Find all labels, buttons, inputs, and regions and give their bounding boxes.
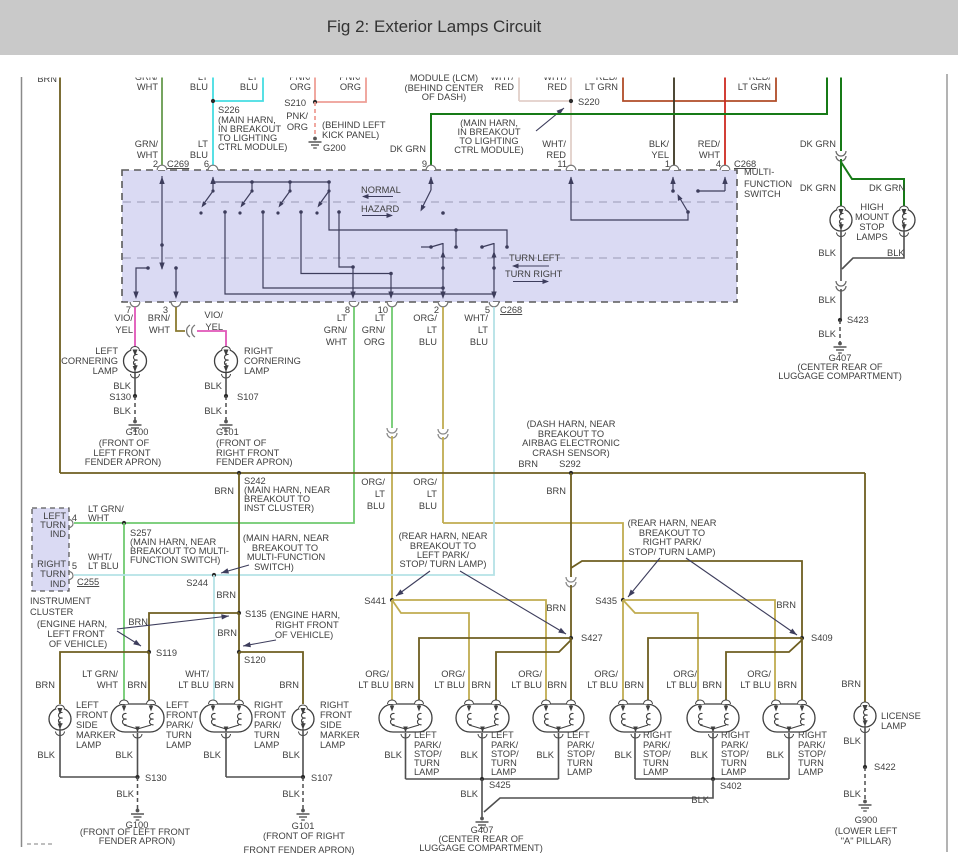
svg-text:LAMP: LAMP: [798, 767, 823, 777]
svg-text:WHT/: WHT/: [185, 669, 209, 679]
svg-text:ORG/: ORG/: [594, 669, 618, 679]
svg-text:BLK: BLK: [113, 381, 131, 391]
svg-text:S422: S422: [874, 762, 896, 772]
svg-text:FUNCTION: FUNCTION: [744, 179, 792, 189]
svg-text:LUGGAGE COMPARTMENT): LUGGAGE COMPARTMENT): [778, 371, 902, 381]
svg-text:BRN: BRN: [127, 680, 147, 690]
svg-text:(FRONT OF: (FRONT OF: [99, 438, 150, 448]
svg-text:WHT/: WHT/: [543, 72, 567, 82]
svg-text:LT BLU: LT BLU: [511, 680, 542, 690]
svg-text:WHT/: WHT/: [542, 139, 566, 149]
svg-text:BLK: BLK: [818, 295, 836, 305]
svg-text:LUGGAGE COMPARTMENT): LUGGAGE COMPARTMENT): [419, 843, 543, 853]
svg-text:BLK: BLK: [536, 750, 554, 760]
svg-text:BRN: BRN: [471, 680, 491, 690]
svg-text:BLK: BLK: [113, 406, 131, 416]
svg-text:GRN/: GRN/: [324, 325, 348, 335]
svg-text:VIO/: VIO/: [114, 313, 133, 323]
svg-text:S244: S244: [186, 578, 208, 588]
svg-text:LEFT: LEFT: [166, 700, 189, 710]
svg-text:DK GRN: DK GRN: [869, 183, 905, 193]
svg-text:G101: G101: [292, 821, 315, 831]
svg-text:C268: C268: [734, 159, 756, 169]
svg-text:RED/: RED/: [698, 139, 721, 149]
svg-text:LAMP: LAMP: [643, 767, 668, 777]
svg-text:ORG/: ORG/: [747, 669, 771, 679]
svg-text:4: 4: [72, 513, 77, 523]
svg-text:BRN: BRN: [702, 680, 722, 690]
svg-text:RIGHT: RIGHT: [37, 559, 66, 569]
svg-text:LAMP: LAMP: [254, 740, 279, 750]
svg-text:ORG/: ORG/: [673, 669, 697, 679]
svg-text:BRN: BRN: [776, 600, 796, 610]
svg-text:S409: S409: [811, 633, 833, 643]
svg-text:BRN: BRN: [841, 679, 861, 689]
svg-text:LT: LT: [375, 313, 385, 323]
svg-text:DK GRN: DK GRN: [800, 183, 836, 193]
svg-text:SWITCH: SWITCH: [744, 189, 781, 199]
svg-text:IND: IND: [50, 579, 66, 589]
svg-text:G900: G900: [855, 815, 878, 825]
svg-text:TURN: TURN: [166, 730, 192, 740]
svg-text:LT: LT: [375, 489, 385, 499]
svg-text:TURN RIGHT: TURN RIGHT: [505, 269, 563, 279]
svg-text:FRONT: FRONT: [166, 710, 198, 720]
svg-text:LT BLU: LT BLU: [434, 680, 465, 690]
svg-text:MULTI-FUNCTION: MULTI-FUNCTION: [247, 552, 325, 562]
svg-text:BRN: BRN: [214, 680, 234, 690]
svg-text:BRN: BRN: [216, 590, 236, 600]
svg-text:S226: S226: [218, 105, 240, 115]
svg-text:SWITCH): SWITCH): [254, 562, 294, 572]
svg-text:G200: G200: [323, 143, 346, 153]
svg-text:S220: S220: [578, 97, 600, 107]
svg-text:BRN: BRN: [37, 74, 57, 84]
svg-text:BLK: BLK: [384, 750, 402, 760]
svg-text:LAMP: LAMP: [93, 366, 118, 376]
svg-text:SIDE: SIDE: [76, 720, 98, 730]
svg-text:PNK/: PNK/: [289, 72, 311, 82]
svg-text:BRN: BRN: [518, 459, 538, 469]
svg-text:ORG/: ORG/: [361, 477, 385, 487]
svg-text:S441: S441: [364, 596, 386, 606]
svg-text:LT: LT: [198, 72, 208, 82]
svg-text:S107: S107: [311, 773, 333, 783]
svg-text:S210: S210: [284, 98, 306, 108]
svg-text:BLK: BLK: [766, 750, 784, 760]
svg-text:FRONT: FRONT: [254, 710, 286, 720]
svg-text:STOP/ TURN LAMP): STOP/ TURN LAMP): [400, 559, 487, 569]
svg-text:LT: LT: [427, 325, 437, 335]
svg-text:LT: LT: [198, 139, 208, 149]
svg-text:LAMP: LAMP: [76, 740, 101, 750]
svg-text:BLK: BLK: [282, 789, 300, 799]
svg-text:MARKER: MARKER: [76, 730, 116, 740]
svg-text:PNK/: PNK/: [339, 72, 361, 82]
svg-text:WHT: WHT: [326, 337, 347, 347]
svg-text:BLU: BLU: [470, 337, 488, 347]
svg-text:BRN: BRN: [217, 628, 237, 638]
svg-text:S130: S130: [145, 773, 167, 783]
svg-text:LEFT: LEFT: [567, 730, 590, 740]
svg-text:C255: C255: [77, 577, 99, 587]
svg-text:ORG/: ORG/: [413, 477, 437, 487]
svg-text:LT BLU: LT BLU: [358, 680, 389, 690]
svg-text:S119: S119: [156, 648, 177, 658]
svg-text:LT BLU: LT BLU: [666, 680, 697, 690]
svg-text:LEFT: LEFT: [76, 700, 99, 710]
svg-text:S402: S402: [720, 781, 742, 791]
svg-text:PARK/: PARK/: [254, 720, 282, 730]
svg-text:MARKER: MARKER: [320, 730, 360, 740]
svg-text:RIGHT: RIGHT: [244, 346, 273, 356]
svg-text:BRN: BRN: [279, 680, 299, 690]
svg-text:BLK: BLK: [203, 750, 221, 760]
svg-text:BRN/: BRN/: [148, 313, 171, 323]
svg-text:LT BLU: LT BLU: [587, 680, 618, 690]
svg-text:LT: LT: [337, 313, 347, 323]
svg-text:BRN: BRN: [624, 680, 644, 690]
svg-text:RIGHT: RIGHT: [721, 730, 750, 740]
svg-text:YEL: YEL: [115, 325, 133, 335]
svg-text:BRN: BRN: [777, 680, 797, 690]
svg-text:(REAR HARN, NEAR: (REAR HARN, NEAR: [399, 531, 488, 541]
svg-text:OF DASH): OF DASH): [422, 92, 466, 102]
svg-text:BLK: BLK: [843, 789, 861, 799]
svg-text:S427: S427: [581, 633, 603, 643]
svg-text:RIGHT: RIGHT: [643, 730, 672, 740]
svg-text:(FRONT OF: (FRONT OF: [216, 438, 267, 448]
svg-text:11: 11: [557, 159, 567, 169]
svg-text:FRONT FENDER APRON): FRONT FENDER APRON): [244, 845, 355, 855]
svg-text:WHT: WHT: [97, 680, 118, 690]
svg-text:LEFT: LEFT: [95, 346, 118, 356]
svg-text:TURN: TURN: [40, 569, 66, 579]
svg-text:BLU: BLU: [367, 501, 385, 511]
svg-text:S425: S425: [489, 780, 511, 790]
svg-text:BLK: BLK: [818, 248, 836, 258]
svg-text:BLK: BLK: [614, 750, 632, 760]
svg-text:STOP/ TURN LAMP): STOP/ TURN LAMP): [629, 547, 716, 557]
svg-text:BLU: BLU: [419, 501, 437, 511]
svg-text:BLK: BLK: [690, 750, 708, 760]
svg-text:CRASH SENSOR): CRASH SENSOR): [532, 448, 610, 458]
svg-text:5: 5: [72, 561, 77, 571]
svg-text:S130: S130: [109, 392, 131, 402]
svg-text:LEFT: LEFT: [414, 730, 437, 740]
svg-text:S120: S120: [244, 655, 266, 665]
svg-text:(BEHIND LEFT: (BEHIND LEFT: [322, 120, 386, 130]
svg-text:LAMP: LAMP: [491, 767, 516, 777]
svg-text:LAMP: LAMP: [414, 767, 439, 777]
svg-text:LAMP: LAMP: [567, 767, 592, 777]
svg-text:OF VEHICLE): OF VEHICLE): [275, 630, 333, 640]
svg-text:ORG: ORG: [287, 122, 308, 132]
svg-text:C268: C268: [500, 305, 522, 315]
svg-text:FRONT: FRONT: [320, 710, 352, 720]
svg-text:ORG/: ORG/: [441, 669, 465, 679]
svg-text:BLK: BLK: [116, 789, 134, 799]
svg-text:RED: RED: [494, 82, 514, 92]
svg-text:LEFT: LEFT: [491, 730, 514, 740]
svg-text:BLK/: BLK/: [649, 139, 670, 149]
svg-text:Fig 2: Exterior Lamps Circuit: Fig 2: Exterior Lamps Circuit: [327, 17, 542, 36]
svg-text:RED: RED: [547, 82, 567, 92]
svg-text:LT: LT: [478, 325, 488, 335]
svg-text:LAMP: LAMP: [721, 767, 746, 777]
svg-text:ORG/: ORG/: [413, 313, 437, 323]
svg-text:ORG: ORG: [364, 337, 385, 347]
svg-text:BLU: BLU: [190, 82, 208, 92]
svg-text:VIO/: VIO/: [204, 310, 223, 320]
svg-text:CLUSTER: CLUSTER: [30, 607, 74, 617]
svg-text:LT BLU: LT BLU: [88, 561, 119, 571]
svg-text:S423: S423: [847, 315, 869, 325]
svg-text:PARK/: PARK/: [166, 720, 194, 730]
svg-text:FENDER APRON): FENDER APRON): [85, 457, 161, 467]
svg-text:G101: G101: [216, 427, 239, 437]
svg-text:LT BLU: LT BLU: [178, 680, 209, 690]
svg-text:LT GRN/: LT GRN/: [82, 669, 118, 679]
svg-text:(FRONT OF RIGHT: (FRONT OF RIGHT: [263, 831, 345, 841]
svg-text:BLK: BLK: [843, 736, 861, 746]
svg-text:S292: S292: [559, 459, 581, 469]
svg-text:RIGHT: RIGHT: [320, 700, 349, 710]
svg-text:RIGHT: RIGHT: [254, 700, 283, 710]
svg-text:LEFT FRONT: LEFT FRONT: [47, 629, 104, 639]
svg-text:BLU: BLU: [419, 337, 437, 347]
svg-text:RED/: RED/: [596, 72, 619, 82]
svg-text:ORG: ORG: [340, 82, 361, 92]
svg-text:(LOWER LEFT: (LOWER LEFT: [835, 826, 898, 836]
svg-text:LICENSE: LICENSE: [881, 711, 921, 721]
svg-text:BLK: BLK: [460, 750, 478, 760]
svg-text:ORG/: ORG/: [518, 669, 542, 679]
svg-text:RIGHT PARK/: RIGHT PARK/: [643, 537, 702, 547]
svg-text:(REAR HARN, NEAR: (REAR HARN, NEAR: [628, 518, 717, 528]
svg-text:TURN: TURN: [254, 730, 280, 740]
svg-text:MODULE (LCM): MODULE (LCM): [410, 73, 478, 83]
svg-text:S107: S107: [237, 392, 259, 402]
svg-text:GRN/: GRN/: [362, 325, 386, 335]
svg-text:RIGHT: RIGHT: [798, 730, 827, 740]
svg-text:INSTRUMENT: INSTRUMENT: [30, 596, 91, 606]
svg-text:LT: LT: [427, 489, 437, 499]
svg-text:LT: LT: [248, 72, 258, 82]
svg-text:LAMP: LAMP: [320, 740, 345, 750]
svg-text:IND: IND: [50, 529, 66, 539]
svg-text:RIGHT FRONT: RIGHT FRONT: [275, 620, 339, 630]
svg-text:S435: S435: [595, 596, 617, 606]
svg-text:LT GRN: LT GRN: [738, 82, 771, 92]
svg-text:FUNCTION SWITCH): FUNCTION SWITCH): [130, 555, 220, 565]
svg-text:LAMP: LAMP: [166, 740, 191, 750]
svg-text:"A" PILLAR): "A" PILLAR): [841, 836, 892, 846]
svg-text:CTRL MODULE): CTRL MODULE): [218, 142, 287, 152]
svg-text:YEL: YEL: [205, 322, 223, 332]
svg-text:CORNERING: CORNERING: [61, 356, 118, 366]
svg-text:DK GRN: DK GRN: [390, 144, 426, 154]
svg-text:HAZARD: HAZARD: [361, 204, 400, 214]
svg-text:GRN/: GRN/: [135, 72, 159, 82]
svg-text:BLK: BLK: [818, 329, 836, 339]
svg-text:BRN: BRN: [394, 680, 414, 690]
svg-text:BLK: BLK: [282, 750, 300, 760]
svg-text:AIRBAG ELECTRONIC: AIRBAG ELECTRONIC: [522, 438, 620, 448]
svg-text:TURN LEFT: TURN LEFT: [509, 253, 560, 263]
svg-text:BLK: BLK: [460, 789, 478, 799]
svg-text:NORMAL: NORMAL: [361, 185, 401, 195]
svg-text:LAMP: LAMP: [244, 366, 269, 376]
svg-text:KICK PANEL): KICK PANEL): [322, 130, 379, 140]
svg-text:BLK: BLK: [115, 750, 133, 760]
svg-text:MOUNT: MOUNT: [855, 212, 889, 222]
svg-text:BLK: BLK: [691, 795, 709, 805]
svg-text:(MAIN HARN, NEAR: (MAIN HARN, NEAR: [243, 533, 330, 543]
svg-text:RED/: RED/: [749, 72, 772, 82]
svg-text:ORG/: ORG/: [365, 669, 389, 679]
svg-text:BRN: BRN: [546, 486, 566, 496]
svg-text:LT BLU: LT BLU: [740, 680, 771, 690]
svg-text:BLK: BLK: [204, 381, 222, 391]
svg-text:LAMP: LAMP: [881, 721, 906, 731]
svg-text:LAMPS: LAMPS: [856, 232, 888, 242]
svg-text:BRN: BRN: [214, 486, 234, 496]
svg-text:(ENGINE HARN,: (ENGINE HARN,: [37, 619, 107, 629]
svg-text:OF VEHICLE): OF VEHICLE): [49, 639, 107, 649]
svg-text:FENDER APRON): FENDER APRON): [216, 457, 292, 467]
svg-text:CTRL MODULE): CTRL MODULE): [454, 145, 523, 155]
svg-text:INST CLUSTER): INST CLUSTER): [244, 503, 314, 513]
svg-text:(DASH HARN, NEAR: (DASH HARN, NEAR: [527, 419, 616, 429]
svg-text:GRN/: GRN/: [135, 139, 159, 149]
svg-text:BRN: BRN: [35, 680, 55, 690]
svg-text:BLK: BLK: [37, 750, 55, 760]
svg-text:FENDER APRON): FENDER APRON): [99, 836, 175, 846]
svg-text:PNK/: PNK/: [286, 111, 308, 121]
svg-text:S135: S135: [245, 609, 267, 619]
svg-text:SIDE: SIDE: [320, 720, 342, 730]
svg-text:BRN: BRN: [546, 603, 566, 613]
svg-text:ORG: ORG: [290, 82, 311, 92]
svg-text:WHT/: WHT/: [464, 313, 488, 323]
svg-text:FRONT: FRONT: [76, 710, 108, 720]
svg-text:WHT: WHT: [137, 82, 158, 92]
svg-text:WHT: WHT: [149, 325, 170, 335]
svg-text:BLU: BLU: [240, 82, 258, 92]
svg-text:C269: C269: [167, 159, 189, 169]
svg-text:HIGH: HIGH: [860, 202, 883, 212]
svg-text:BRN: BRN: [547, 680, 567, 690]
svg-text:WHT/: WHT/: [490, 72, 514, 82]
svg-text:DK GRN: DK GRN: [800, 139, 836, 149]
svg-text:BLK: BLK: [204, 406, 222, 416]
svg-text:WHT: WHT: [88, 513, 109, 523]
svg-text:G100: G100: [126, 427, 149, 437]
svg-text:BLK: BLK: [887, 248, 905, 258]
svg-text:STOP: STOP: [859, 222, 884, 232]
svg-text:CORNERING: CORNERING: [244, 356, 301, 366]
svg-text:(ENGINE HARN,: (ENGINE HARN,: [270, 610, 340, 620]
svg-text:LT GRN: LT GRN: [585, 82, 618, 92]
